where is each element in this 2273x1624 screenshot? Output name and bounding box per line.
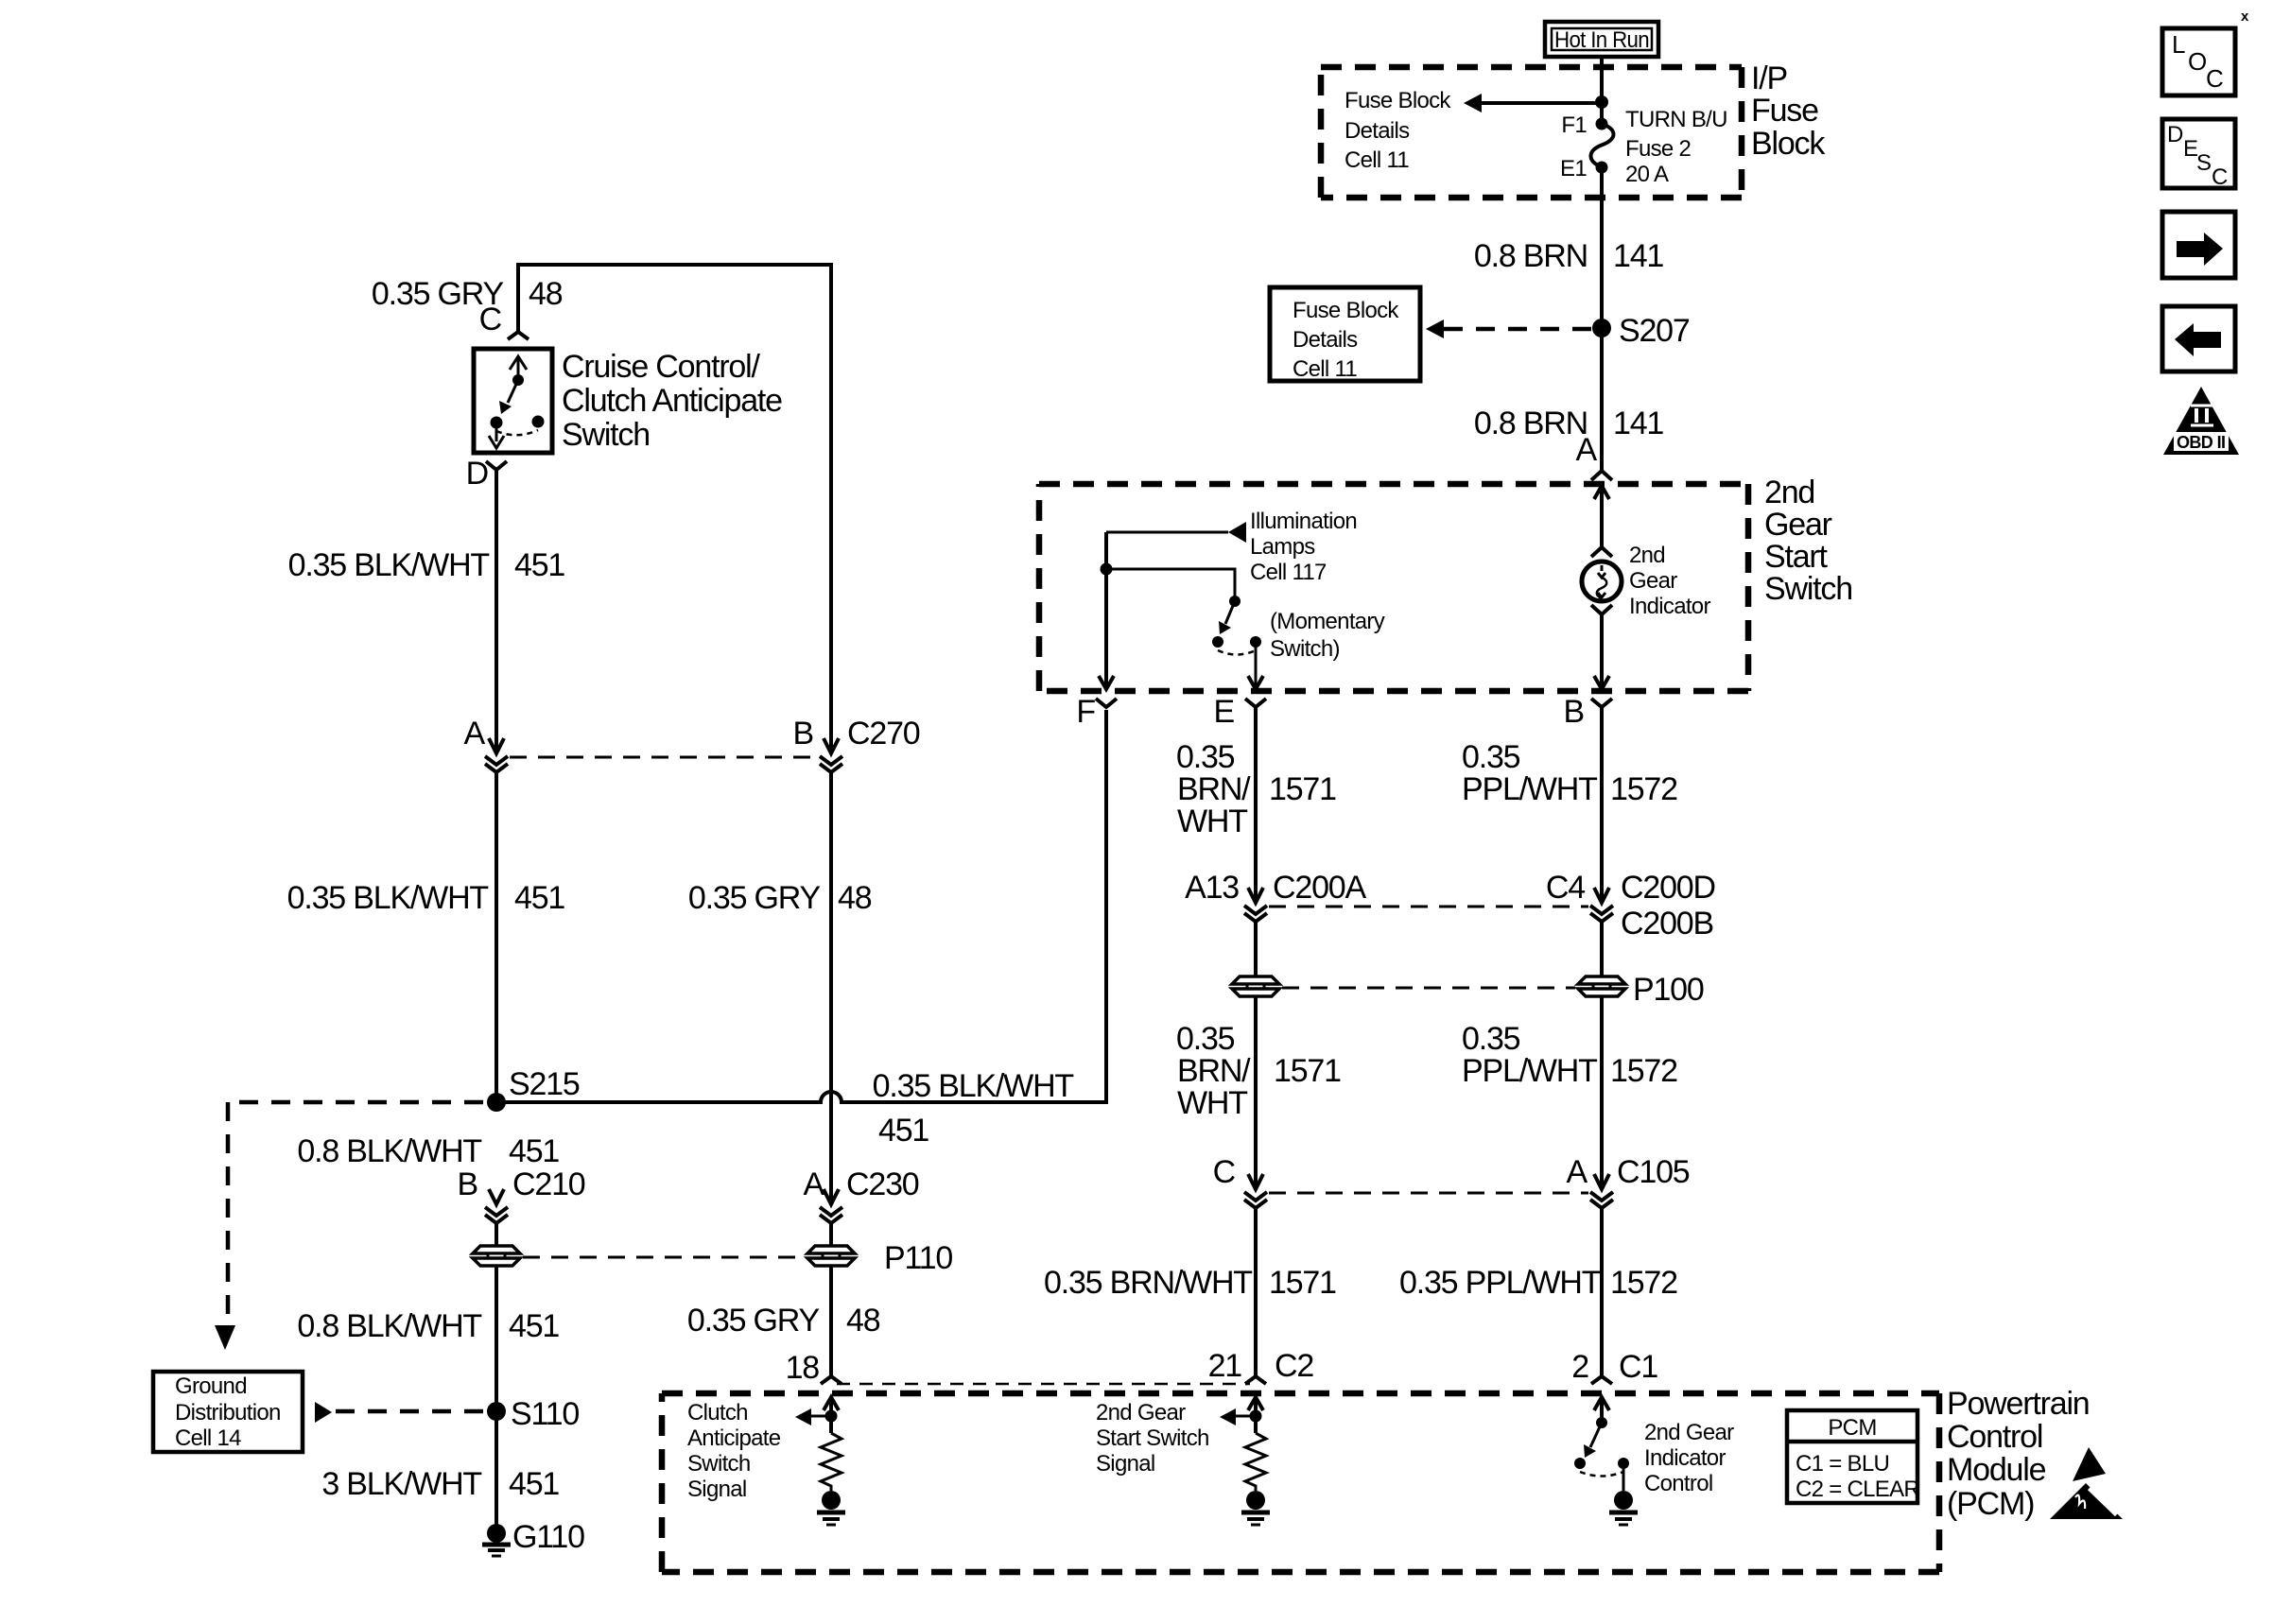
2nd gear start switch dashed box — [1039, 484, 1748, 691]
wire E1 down to 2nd gear switch pin A — [1600, 167, 1604, 471]
wire label 0.35 BLK/WHT 451 (mid left) — [287, 880, 565, 916]
wire C105 to PCM pin 2 — [1600, 1206, 1604, 1376]
svg-text:C: C — [2206, 64, 2224, 93]
svg-text:(Momentary: (Momentary — [1270, 609, 1385, 634]
svg-text:Fuse Block: Fuse Block — [1293, 298, 1399, 323]
svg-text:48: 48 — [529, 276, 563, 312]
svg-text:L: L — [2172, 30, 2185, 59]
svg-text:Anticipate: Anticipate — [687, 1425, 781, 1451]
wire C230 to P110 — [829, 1221, 833, 1246]
svg-text:A: A — [1576, 432, 1598, 468]
wire switch to ground (indicator control) — [1622, 1463, 1625, 1491]
svg-text:Clutch Anticipate: Clutch Anticipate — [562, 383, 782, 419]
svg-text:Fuse: Fuse — [1751, 93, 1818, 129]
svg-text:Gear: Gear — [1764, 507, 1832, 543]
svg-text:1571: 1571 — [1269, 771, 1336, 807]
pin 2 terminal chevron — [1591, 1376, 1612, 1384]
svg-text:A: A — [804, 1166, 825, 1202]
svg-text:0.35 GRY: 0.35 GRY — [687, 1303, 820, 1339]
svg-text:0.35 BLK/WHT: 0.35 BLK/WHT — [873, 1068, 1074, 1104]
cruise switch internal contacts and blade — [489, 356, 545, 448]
svg-text:A13: A13 — [1185, 870, 1239, 906]
svg-text:Start: Start — [1764, 539, 1829, 575]
resistor (2nd gear signal pull-up) — [1245, 1433, 1266, 1491]
svg-text:2nd Gear: 2nd Gear — [1096, 1400, 1186, 1425]
splice S215 — [487, 1093, 506, 1112]
(Momentary Switch) label — [1270, 609, 1385, 662]
svg-text:0.35: 0.35 — [1462, 739, 1520, 775]
svg-text:Illumination: Illumination — [1250, 509, 1357, 534]
I/P Fuse Block label — [1751, 60, 1826, 162]
ground distribution reference box — [153, 1372, 303, 1452]
pin B exit arrow — [1594, 676, 1609, 689]
svg-text:Signal: Signal — [1096, 1451, 1155, 1477]
fuse E1 terminal dot — [1596, 162, 1608, 174]
connector C200 dashed mating line — [1269, 906, 1588, 908]
junction dot 2nd gear signal — [1250, 1410, 1262, 1423]
svg-text:0.35 BLK/WHT: 0.35 BLK/WHT — [287, 880, 489, 916]
svg-text:C200B: C200B — [1621, 906, 1713, 942]
svg-text:2nd Gear: 2nd Gear — [1644, 1420, 1734, 1445]
connector C210 terminal — [485, 1189, 508, 1223]
svg-text:(PCM): (PCM) — [1947, 1486, 2034, 1522]
connector C270 terminal B — [820, 738, 842, 772]
P100 dashed mating line — [1282, 987, 1575, 990]
connector C270 terminal A — [485, 738, 508, 772]
junction dot clutch signal — [825, 1410, 838, 1423]
pass-through grommet P110 (right) — [807, 1246, 855, 1266]
connector C270 dashed mating line — [510, 756, 818, 759]
svg-text:Cruise Control/: Cruise Control/ — [562, 349, 760, 385]
svg-text:BRN/: BRN/ — [1177, 1053, 1251, 1089]
wire label 0.35 BRN/WHT 1571 (lower) — [1044, 1265, 1336, 1301]
svg-text:Hot In Run: Hot In Run — [1554, 27, 1649, 53]
wire indicator to pin B — [1600, 614, 1604, 689]
svg-text:C105: C105 — [1617, 1154, 1690, 1190]
svg-text:Powertrain: Powertrain — [1947, 1386, 2090, 1422]
junction dot at fuse feed — [1595, 95, 1608, 109]
2nd Gear Start Switch Signal label — [1096, 1400, 1209, 1477]
wire momentary switch to pin E — [1255, 642, 1258, 689]
wire label 0.35 GRY 48 (mid) — [688, 880, 872, 916]
pin 21 terminal chevron — [1245, 1376, 1266, 1384]
dashed reference from S215 to ground distribution — [215, 1102, 483, 1350]
wire label 0.35 BRN/WHT 1571 (mid) — [1176, 1021, 1341, 1121]
ground terminal dot (clutch) — [822, 1491, 841, 1510]
pin A entry arrow into box — [1594, 486, 1609, 499]
fuse F1 terminal dot — [1596, 118, 1608, 130]
svg-text:C270: C270 — [847, 716, 920, 752]
connector C200D terminal — [1590, 888, 1613, 922]
svg-text:S: S — [2196, 150, 2212, 176]
svg-text:Module: Module — [1947, 1452, 2046, 1488]
Powertrain Control Module (PCM) label — [1947, 1386, 2090, 1522]
right arrow legend box — [2162, 212, 2235, 278]
svg-text:Ground: Ground — [175, 1373, 247, 1399]
fuse value label — [1625, 107, 1727, 187]
Illumination Lamps Cell 117 label — [1250, 509, 1357, 585]
svg-text:3 BLK/WHT: 3 BLK/WHT — [321, 1466, 481, 1502]
svg-text:C: C — [479, 302, 502, 337]
P110 dashed mating line — [523, 1256, 805, 1259]
wire pin 2 into PCM — [1600, 1397, 1604, 1423]
connector C105 terminal (left) — [1244, 1174, 1267, 1208]
wire P110 to S110 — [495, 1267, 498, 1525]
svg-text:Lamps: Lamps — [1250, 534, 1315, 560]
ground (clutch) — [817, 1512, 845, 1525]
wire label 0.35 BLK/WHT 451 (upper left) — [288, 547, 565, 583]
svg-text:Cell 11: Cell 11 — [1293, 356, 1357, 382]
resistor (clutch anticipate pull-up) — [821, 1433, 842, 1491]
ground terminal dot (indicator control) — [1614, 1491, 1633, 1510]
pin D terminal chevron — [486, 461, 507, 470]
pin 18 entry arrow — [824, 1397, 839, 1410]
wire P110 to PCM pin 18 — [829, 1267, 833, 1376]
Clutch Anticipate Switch Signal label — [687, 1400, 781, 1502]
ground terminal dot (2nd gear signal) — [1246, 1491, 1265, 1510]
svg-text:Fuse 2: Fuse 2 — [1625, 136, 1692, 162]
svg-text:1572: 1572 — [1610, 771, 1677, 807]
svg-text:18: 18 — [786, 1350, 820, 1386]
wire label 0.35 BRN/WHT 1571 (upper) — [1176, 739, 1336, 839]
illumination lamps feed wire — [1106, 531, 1228, 534]
svg-text:0.35: 0.35 — [1462, 1021, 1520, 1057]
svg-text:PPL/WHT: PPL/WHT — [1462, 1053, 1597, 1089]
svg-text:C4: C4 — [1546, 870, 1585, 906]
illumination lamps arrow — [1228, 522, 1246, 543]
svg-text:Details: Details — [1345, 118, 1410, 144]
svg-text:C1: C1 — [1619, 1349, 1657, 1385]
svg-text:0.35 BRN/WHT: 0.35 BRN/WHT — [1044, 1265, 1252, 1301]
connector C230 terminal — [820, 1189, 842, 1223]
svg-text:1572: 1572 — [1610, 1053, 1677, 1089]
svg-text:0.8 BRN: 0.8 BRN — [1474, 238, 1588, 274]
wire pin A to indicator lamp — [1600, 486, 1604, 546]
wire P100 to C105 (left) — [1254, 997, 1258, 1189]
wire label 0.8 BLK/WHT 451 — [297, 1133, 559, 1169]
Hot In Run power tag — [1545, 22, 1658, 57]
wire from Hot In Run to fuse F1 — [1600, 57, 1604, 124]
arrow to fuse block details — [1464, 94, 1602, 112]
arrow to clutch anticipate signal — [795, 1408, 831, 1425]
pin B terminal chevron — [1591, 699, 1612, 707]
svg-text:0.35: 0.35 — [1176, 739, 1235, 775]
momentary switch blade and contacts — [1212, 596, 1261, 655]
pin E terminal chevron — [1245, 699, 1266, 707]
svg-text:21: 21 — [1208, 1348, 1242, 1384]
wire pin B down to C200D — [1600, 707, 1604, 903]
wire C200D to P100 — [1600, 920, 1604, 976]
svg-text:0.35: 0.35 — [1176, 1021, 1235, 1057]
svg-text:451: 451 — [509, 1308, 559, 1344]
dashed arrow from details box to S207 — [1426, 320, 1591, 338]
dashed arrow ground box to S110 — [315, 1402, 484, 1423]
splice S207 — [1592, 319, 1611, 337]
svg-text:0.35 BLK/WHT: 0.35 BLK/WHT — [288, 547, 490, 583]
splice S110 — [487, 1402, 506, 1421]
connector C105 dashed mating line — [1269, 1192, 1588, 1195]
wire junction to momentary switch — [1106, 569, 1235, 597]
2nd Gear Indicator Control label — [1644, 1420, 1734, 1496]
svg-text:C230: C230 — [846, 1166, 919, 1202]
svg-text:C1 = BLU: C1 = BLU — [1796, 1451, 1889, 1477]
svg-text:C200A: C200A — [1273, 870, 1366, 906]
svg-text:Switch: Switch — [1764, 571, 1852, 607]
wire C270 B down to C230 — [829, 770, 833, 1204]
wire pin 21 into PCM — [1254, 1397, 1258, 1433]
svg-text:1571: 1571 — [1269, 1265, 1336, 1301]
svg-text:C2 = CLEAR: C2 = CLEAR — [1796, 1477, 1919, 1502]
wire label 0.35 GRY 48 (lower) — [687, 1303, 880, 1339]
svg-text:451: 451 — [514, 547, 564, 583]
pass-through grommet P100 (left) — [1232, 976, 1279, 996]
svg-text:C210: C210 — [512, 1166, 585, 1202]
svg-text:PCM: PCM — [1828, 1415, 1876, 1441]
2nd gear indicator lamp — [1582, 547, 1622, 614]
wire label 0.8 BRN 141 (lower) — [1474, 406, 1664, 441]
fuse TURN B/U Fuse 2 20 A — [1590, 124, 1613, 167]
svg-text:Signal: Signal — [687, 1477, 747, 1502]
Fuse Block Details Cell 11 reference box — [1270, 287, 1420, 382]
svg-text:Gear: Gear — [1629, 568, 1677, 594]
wire C200A to P100 — [1254, 920, 1258, 976]
wire label 0.35 PPL/WHT 1572 (mid) — [1462, 1021, 1677, 1089]
svg-text:Switch: Switch — [562, 417, 650, 453]
svg-text:48: 48 — [846, 1303, 880, 1339]
wire label 0.8 BRN 141 (upper) — [1474, 238, 1664, 274]
svg-text:2nd: 2nd — [1764, 475, 1814, 510]
svg-text:O: O — [2188, 47, 2207, 76]
svg-text:Details: Details — [1293, 327, 1358, 353]
svg-text:Start Switch: Start Switch — [1096, 1425, 1209, 1451]
LOC legend box — [2162, 28, 2235, 95]
Fuse Block Details Cell 11 label (inside fuse box) — [1345, 88, 1451, 173]
wire 0.35 GRY 48 loop from pin C up over to C270 — [518, 265, 831, 753]
svg-text:451: 451 — [878, 1113, 928, 1149]
wire label 3 BLK/WHT 451 — [321, 1466, 559, 1502]
svg-text:2: 2 — [1571, 1349, 1588, 1385]
svg-text:WHT: WHT — [1177, 1085, 1247, 1121]
pin F terminal chevron — [1096, 699, 1117, 707]
pin E exit arrow — [1248, 676, 1263, 689]
svg-text:WHT: WHT — [1177, 803, 1247, 839]
cruise switch name label — [562, 349, 782, 453]
svg-text:48: 48 — [838, 880, 872, 916]
connector C2 dashed gang line — [837, 1383, 1250, 1386]
svg-text:Cell 14: Cell 14 — [175, 1425, 241, 1451]
svg-text:F: F — [1076, 694, 1095, 730]
svg-text:x: x — [2241, 9, 2249, 25]
svg-text:S110: S110 — [511, 1396, 579, 1432]
svg-text:F1: F1 — [1561, 112, 1587, 138]
svg-text:Control: Control — [1644, 1471, 1712, 1496]
pass-through grommet P100 (right) — [1578, 976, 1625, 996]
svg-text:P100: P100 — [1633, 972, 1704, 1008]
cruise control / clutch anticipate switch box — [474, 349, 552, 453]
svg-text:451: 451 — [509, 1133, 559, 1169]
svg-text:Indicator: Indicator — [1629, 594, 1710, 619]
svg-text:141: 141 — [1613, 238, 1663, 274]
svg-text:1571: 1571 — [1274, 1053, 1341, 1089]
svg-text:0.8 BLK/WHT: 0.8 BLK/WHT — [297, 1133, 481, 1169]
svg-text:C200D: C200D — [1621, 870, 1715, 906]
2nd Gear Start Switch label — [1764, 475, 1852, 607]
svg-text:B: B — [793, 716, 813, 752]
wire pin D down to C270 — [495, 470, 498, 753]
wire label 0.35 PPL/WHT 1572 (lower) — [1399, 1265, 1677, 1301]
svg-text:C2: C2 — [1275, 1348, 1313, 1384]
svg-text:0.35 GRY: 0.35 GRY — [688, 880, 821, 916]
OBD II legend symbol — [2163, 387, 2239, 455]
ground G110 — [482, 1524, 511, 1556]
pin 18 terminal chevron — [821, 1376, 842, 1384]
svg-text:0.8 BRN: 0.8 BRN — [1474, 406, 1588, 441]
left arrow legend box — [2162, 306, 2235, 371]
svg-text:A: A — [1567, 1154, 1588, 1190]
powertrain control module dashed box — [662, 1393, 1939, 1572]
svg-text:D: D — [466, 456, 488, 492]
svg-text:Switch): Switch) — [1270, 636, 1340, 662]
connector C105 terminal (right) — [1590, 1174, 1613, 1208]
svg-text:141: 141 — [1613, 406, 1663, 441]
svg-text:Indicator: Indicator — [1644, 1445, 1726, 1471]
pin F exit arrow — [1099, 676, 1114, 689]
connector C200A terminal — [1244, 888, 1267, 922]
wire C270 A down to S215 — [495, 770, 498, 1102]
wire label 0.8 BLK/WHT 451 (lower) — [297, 1308, 559, 1344]
wire label 0.35 GRY 48 (top) — [372, 276, 563, 312]
svg-text:2nd: 2nd — [1629, 543, 1665, 568]
svg-text:I/P: I/P — [1751, 60, 1787, 96]
svg-text:S207: S207 — [1619, 313, 1690, 349]
svg-text:E: E — [1214, 694, 1235, 730]
ground (2nd gear signal) — [1241, 1512, 1270, 1525]
svg-text:B: B — [1564, 694, 1584, 730]
svg-text:PPL/WHT: PPL/WHT — [1462, 771, 1597, 807]
svg-text:S215: S215 — [509, 1066, 580, 1102]
svg-text:C: C — [2212, 164, 2228, 190]
svg-text:B: B — [458, 1166, 477, 1202]
pin 2 entry arrow — [1594, 1397, 1609, 1410]
DESC legend box — [2162, 119, 2235, 190]
wire label 0.35 PPL/WHT 1572 (upper) — [1462, 739, 1677, 807]
pin A terminal chevron — [1591, 471, 1612, 480]
wire pin E down to C200A — [1254, 707, 1258, 903]
svg-text:20 A: 20 A — [1625, 162, 1669, 187]
svg-text:Cell 11: Cell 11 — [1345, 147, 1409, 173]
arrow to 2nd gear start switch signal — [1220, 1408, 1256, 1425]
svg-text:0.35 PPL/WHT: 0.35 PPL/WHT — [1399, 1265, 1601, 1301]
pass-through grommet P110 (left) — [473, 1246, 520, 1266]
svg-text:G110: G110 — [512, 1519, 584, 1555]
svg-text:TURN B/U: TURN B/U — [1625, 107, 1727, 132]
wire pin 18 into PCM — [829, 1397, 833, 1433]
2nd Gear Indicator label — [1629, 543, 1710, 619]
svg-text:Control: Control — [1947, 1419, 2042, 1455]
junction dot on F branch — [1101, 563, 1113, 576]
svg-text:451: 451 — [509, 1466, 559, 1502]
svg-text:0.8 BLK/WHT: 0.8 BLK/WHT — [297, 1308, 481, 1344]
svg-text:Clutch: Clutch — [687, 1400, 748, 1425]
wire P100 to C105 (right) — [1600, 997, 1604, 1189]
svg-text:E1: E1 — [1560, 156, 1587, 181]
svg-text:Block: Block — [1751, 126, 1826, 162]
PCM connector legend box — [1787, 1410, 1919, 1503]
svg-text:Fuse Block: Fuse Block — [1345, 88, 1451, 113]
pin C terminal chevron — [508, 332, 529, 339]
2nd gear indicator control switch — [1574, 1417, 1629, 1477]
svg-text:Cell 117: Cell 117 — [1250, 560, 1327, 585]
svg-text:Switch: Switch — [687, 1451, 751, 1477]
wire lamp feed down to pin F — [1104, 532, 1108, 689]
svg-text:A: A — [464, 716, 486, 752]
pin 21 entry arrow — [1248, 1397, 1263, 1410]
ESD sensitive device symbol — [2050, 1447, 2123, 1519]
svg-text:OBD II: OBD II — [2177, 433, 2226, 452]
svg-text:P110: P110 — [884, 1240, 952, 1276]
I/P fuse block dashed box — [1321, 67, 1742, 198]
svg-text:D: D — [2167, 122, 2183, 147]
svg-text:BRN/: BRN/ — [1177, 771, 1251, 807]
svg-text:1572: 1572 — [1610, 1265, 1677, 1301]
svg-text:Distribution: Distribution — [175, 1400, 281, 1425]
wire C210 to P110 — [495, 1221, 498, 1246]
svg-text:C: C — [1213, 1154, 1236, 1190]
svg-text:451: 451 — [514, 880, 564, 916]
wire C105 to PCM pin 21 — [1254, 1206, 1258, 1376]
ground (indicator control) — [1609, 1512, 1638, 1525]
wire S215 to F branch (with hop over GRY wire) — [496, 710, 1106, 1102]
